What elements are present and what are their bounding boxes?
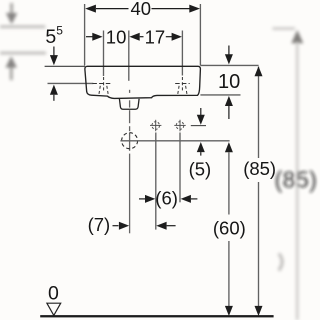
dim (5) down arrow: [197, 108, 205, 125]
right dim 10 up arrow: [225, 96, 233, 119]
svg-text:17: 17: [145, 26, 166, 47]
svg-text:(7): (7): [88, 214, 111, 235]
dim (5) up arrow: [197, 142, 205, 156]
dim (6) arrow left-pointing: [181, 195, 198, 203]
svg-text:(6): (6): [155, 188, 178, 209]
tap hole 2 (dashed, hidden): [175, 77, 190, 96]
vertical line from left crosshair: [155, 133, 157, 230]
drain stub: [119, 99, 139, 109]
dim 10 extension line (tap1): [103, 31, 105, 77]
svg-text:40: 40: [131, 0, 152, 19]
dim 40 extension line left: [84, 4, 86, 66]
dim (85) line lower: [258, 182, 260, 308]
ghost line lower-left: [0, 52, 46, 55]
dim (7) arrow right-pointing: [113, 222, 130, 230]
dim (85) up arrow: [255, 66, 263, 76]
right dim 10 bottom reference line: [200, 94, 240, 96]
dim (60) down arrow: [225, 306, 233, 316]
svg-text:0: 0: [48, 283, 59, 305]
ghost up arrow: [6, 56, 17, 80]
dim 10 arrow left: [86, 33, 103, 41]
floor line: [40, 315, 273, 317]
dim 5.5 bottom reference line: [48, 82, 94, 84]
dim (60) up arrow: [225, 142, 233, 152]
dim (5) top reference line: [191, 125, 206, 127]
svg-text:10: 10: [106, 26, 127, 47]
svg-text:(5): (5): [189, 158, 212, 179]
svg-text:5: 5: [56, 24, 63, 38]
washbasin outline: [85, 66, 201, 98]
dim (60) line lower: [228, 241, 230, 308]
reference line through drain center: [120, 140, 229, 142]
svg-text:(85): (85): [275, 167, 318, 193]
dim 5.5 up arrow: [50, 85, 58, 101]
dim 40 line: [85, 5, 200, 13]
fixing point crosshair right: [174, 120, 185, 131]
datum triangle: [47, 303, 61, 315]
vertical line from right crosshair: [179, 133, 181, 203]
ghost small mark: [279, 254, 282, 271]
dim (6) arrow right-pointing: [139, 195, 155, 203]
dim 17 arrow right: [166, 33, 182, 41]
ghost down arrow: [6, 3, 17, 24]
right dim 10 down arrow: [225, 46, 233, 65]
dim 40 extension line right: [199, 4, 201, 66]
dim (60) line upper: [228, 152, 230, 214]
dim extension line drain: [128, 31, 130, 81]
svg-text:10: 10: [218, 71, 240, 93]
dim 10 arrow right / 17 left: [129, 33, 143, 41]
right dim 10 top reference line: [200, 64, 258, 66]
ghost vertical line right: [296, 42, 299, 320]
drain circle (dashed): [122, 133, 138, 149]
ghost up arrow right: [291, 30, 303, 43]
fixing point crosshair left: [150, 120, 161, 131]
drain centerline: [129, 90, 131, 234]
ghost top right line: [273, 27, 296, 30]
ghost line upper-left: [0, 25, 45, 28]
dim (7) arrow left-pointing: [156, 222, 175, 230]
dim (85) line upper: [258, 67, 260, 158]
svg-text:(85): (85): [243, 158, 276, 179]
dim 17 extension line (tap2): [181, 31, 183, 76]
tap hole 1 (dashed, hidden): [92, 77, 111, 96]
svg-text:5: 5: [45, 26, 56, 48]
dim 5.5 top reference line: [45, 65, 85, 67]
dim 5.5 down arrow: [50, 47, 58, 66]
dim (85) down arrow: [255, 306, 263, 316]
svg-text:(60): (60): [213, 217, 246, 238]
